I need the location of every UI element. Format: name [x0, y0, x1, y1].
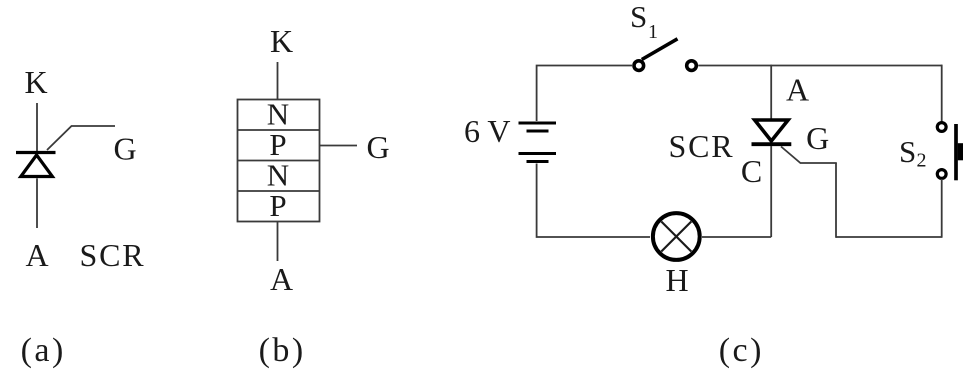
- wire anode lead: [36, 178, 38, 228]
- wire bottom lamp to cathode: [702, 236, 771, 238]
- wire S2 bottom lead: [941, 179, 943, 237]
- four-layer box: [238, 100, 320, 222]
- wire top segment right of S1: [698, 65, 942, 67]
- svg-text:(b): (b): [259, 332, 306, 369]
- svg-text:(a): (a): [21, 332, 66, 369]
- battery B1: [519, 123, 557, 162]
- wire battery top lead: [537, 66, 632, 122]
- svg-text:A: A: [25, 237, 48, 273]
- svg-text:G: G: [806, 120, 829, 156]
- wire right side drop to S2: [941, 65, 943, 122]
- SCR (a) cathode bar: [16, 151, 56, 154]
- wire bottom right segment: [836, 236, 943, 238]
- svg-text:(c): (c): [719, 332, 764, 369]
- wire cathode lead: [36, 103, 38, 151]
- svg-text:6 V: 6 V: [464, 113, 511, 149]
- wire K lead (b): [277, 62, 279, 100]
- svg-text:K: K: [270, 23, 293, 59]
- svg-text:SCR: SCR: [669, 128, 735, 164]
- svg-text:P: P: [269, 188, 286, 223]
- wire cathode drop: [770, 146, 772, 237]
- svg-text:G: G: [366, 129, 389, 165]
- svg-text:S: S: [899, 134, 916, 169]
- SCR (a) triangle: [21, 155, 53, 177]
- svg-text:S: S: [630, 0, 647, 34]
- svg-text:G: G: [113, 131, 136, 167]
- svg-text:C: C: [741, 153, 762, 189]
- thyristor SCR (c): [752, 120, 792, 144]
- switch S2 (push button): [937, 123, 963, 181]
- svg-text:A: A: [786, 72, 809, 108]
- wire gate lead (a): [47, 126, 115, 150]
- svg-text:K: K: [24, 64, 47, 100]
- svg-text:A: A: [270, 261, 293, 297]
- svg-text:1: 1: [648, 21, 658, 43]
- lamp H: [653, 213, 700, 260]
- wire G lead (b): [320, 145, 358, 147]
- svg-text:SCR: SCR: [80, 237, 146, 273]
- wire A lead (b): [277, 222, 279, 262]
- wire battery bottom lead: [537, 164, 650, 238]
- wire gate drop: [835, 163, 837, 238]
- svg-text:2: 2: [917, 150, 927, 172]
- wire anode drop: [770, 65, 772, 120]
- switch S1: [634, 39, 696, 71]
- wire gate lead (c): [781, 147, 837, 164]
- svg-text:H: H: [665, 262, 688, 298]
